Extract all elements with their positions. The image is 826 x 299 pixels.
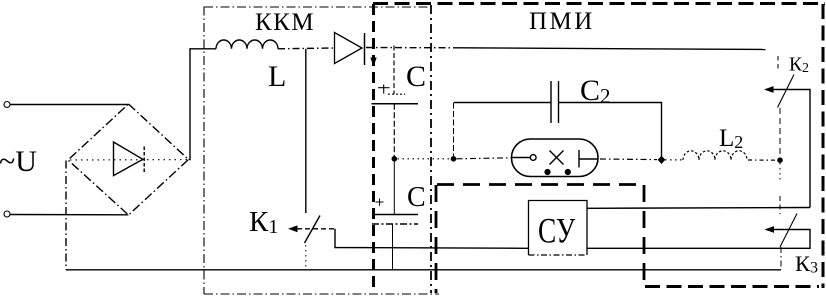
switch K1 dashed actuator wire — [297, 228, 335, 230]
switch K3 wire corner — [587, 230, 810, 249]
wire inductor to diode (dash-dot) — [278, 47, 334, 50]
DC+ wire diode to C node — [366, 47, 460, 49]
svg-text:СУ: СУ — [538, 211, 576, 250]
capacitor C (top) bottom plate — [372, 103, 419, 105]
svg-text:L2: L2 — [719, 125, 743, 152]
node C2 left on bus — [451, 156, 457, 162]
bridge rectifier diamond — [68, 104, 189, 215]
svg-text:К3: К3 — [795, 251, 818, 277]
node right on bus — [777, 157, 783, 163]
DC+ top wire to K2 — [460, 48, 766, 50]
C2 capacitor left wire — [454, 102, 551, 104]
node: wire down to K1 — [305, 49, 307, 213]
wire K1 to SU — [335, 229, 529, 249]
lamp left electrode — [512, 157, 531, 159]
lamp body — [512, 139, 599, 177]
svg-text:К2: К2 — [789, 55, 809, 77]
svg-text:К1: К1 — [249, 206, 278, 238]
wire down to capacitor C top — [393, 46, 395, 95]
capacitor C (bottom) bottom plate — [372, 223, 418, 225]
lamp cathode dot 1 — [544, 169, 550, 175]
PMI left heavy edge — [372, 4, 375, 290]
wire bridge left corner down — [65, 161, 67, 270]
svg-text:C: C — [406, 60, 426, 93]
wire C bottom to bottom rail — [392, 224, 394, 270]
svg-text:L: L — [268, 60, 286, 93]
capacitor C (bottom) plus sign — [376, 199, 384, 206]
wire C top to mid node — [393, 104, 395, 159]
lamp electrode circle — [530, 155, 536, 161]
wire bridge right corner up — [189, 49, 217, 160]
C2 plates — [550, 81, 552, 123]
bottom rail wire — [66, 269, 781, 271]
switch K1 arrow — [288, 225, 298, 232]
bridge diode triangle — [114, 142, 143, 176]
lamp right electrode wire — [579, 158, 598, 160]
capacitor C (top) plus sign — [378, 85, 390, 94]
terminal top — [4, 102, 10, 108]
K2-K3 mechanical link — [779, 108, 781, 157]
inductor L2 (dotted coil) — [683, 151, 747, 160]
svg-text:ПМИ: ПМИ — [529, 8, 595, 35]
wire node to capacitor C bottom — [393, 159, 395, 215]
switch K1 link dots — [305, 245, 307, 269]
C2 right wire — [559, 103, 662, 160]
capacitor C (top) top plate — [388, 93, 405, 95]
KKM right edge dash-dot — [430, 5, 432, 293]
capacitor C (bottom) top plate — [374, 214, 418, 216]
KKM dashed box — [204, 7, 439, 295]
svg-text:C: C — [407, 182, 426, 213]
lamp X — [550, 151, 564, 165]
svg-text:ККМ: ККМ — [255, 9, 315, 36]
bridge horizontal axis dash-dot — [70, 159, 187, 161]
boost diode cathode bar — [364, 33, 366, 65]
terminal bottom — [4, 211, 10, 217]
SU dashed box — [436, 185, 644, 294]
wire bottom terminal to bridge — [10, 214, 129, 216]
inductor L — [216, 40, 278, 49]
svg-text:~U: ~U — [0, 145, 37, 178]
switch K3 blade — [780, 214, 797, 248]
wire SU to K2 corner — [587, 207, 810, 210]
mid bus dash-dot segments — [398, 158, 451, 160]
SU box — [529, 201, 588, 256]
boost diode VD — [335, 33, 363, 64]
switch K2 arrow — [764, 86, 774, 93]
K3 link to bottom rail — [780, 247, 782, 270]
switch K2 blade — [778, 75, 795, 108]
switch K2 wire to corner — [774, 90, 811, 208]
arrow on PMI left edge — [370, 58, 376, 67]
lamp cathode dot 2 — [565, 169, 571, 175]
small dashes left of K2 — [777, 56, 779, 71]
node C2 right on bus (diamond) — [658, 156, 666, 164]
switch K3 arrow — [765, 226, 775, 233]
PMI dashed box — [373, 4, 825, 289]
node mid-bus left — [392, 156, 398, 162]
lamp right electrode bar — [578, 150, 580, 168]
bridge diode cathode bar — [143, 147, 145, 173]
switch K1 blade — [305, 216, 321, 244]
wire top terminal to bridge — [10, 104, 129, 106]
